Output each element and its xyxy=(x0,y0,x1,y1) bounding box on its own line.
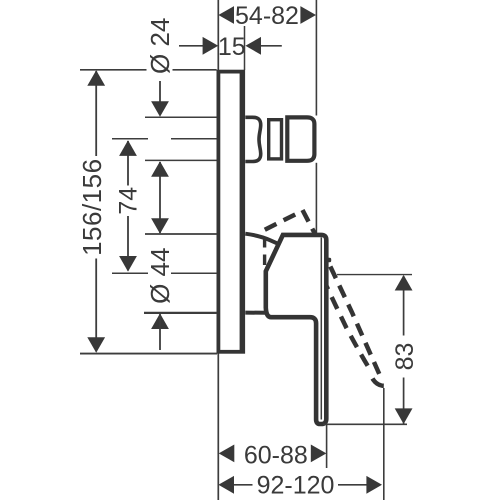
dim 92-120 xyxy=(218,476,234,494)
dim 83 extension top xyxy=(337,274,412,276)
dim 54-82 xyxy=(218,6,234,24)
handle center line xyxy=(112,272,148,274)
dashed handle back edge xyxy=(265,212,301,230)
lever inner line xyxy=(320,238,322,420)
knob top extension line xyxy=(145,116,217,118)
diverter cone xyxy=(245,117,260,161)
plate top extension line xyxy=(80,69,147,71)
svg-text:92-120: 92-120 xyxy=(257,471,335,499)
dashed lever inner edge xyxy=(314,258,372,372)
handle pivot screw xyxy=(327,258,331,263)
plate bottom extension line xyxy=(80,353,217,355)
diverter collar xyxy=(269,120,282,159)
hub bottom extension line xyxy=(144,312,217,314)
lever bottom extension line xyxy=(326,425,328,468)
hub top extension line xyxy=(145,233,217,235)
hub bottom edge xyxy=(245,311,265,315)
dim 74 xyxy=(127,141,129,186)
dim 60-88 xyxy=(219,445,235,463)
wall line / plate back extension xyxy=(217,0,219,500)
dashed lever tip xyxy=(373,379,384,386)
svg-text:74: 74 xyxy=(115,187,143,215)
escutcheon plate xyxy=(218,72,243,352)
dim 83 extension bottom xyxy=(323,423,407,425)
dim 156/156 xyxy=(95,71,97,156)
diverter knob cap xyxy=(287,117,314,160)
svg-text:15: 15 xyxy=(218,33,246,61)
knob tip extension line lower xyxy=(315,163,317,241)
dim 15 xyxy=(179,45,203,47)
plate front face inner line xyxy=(240,73,242,351)
knob tip extension line upper xyxy=(315,0,317,116)
svg-text:54-82: 54-82 xyxy=(235,2,299,30)
svg-text:83: 83 xyxy=(391,343,419,371)
plate front face extension line xyxy=(244,26,246,70)
svg-text:156/156: 156/156 xyxy=(77,158,107,255)
svg-text:60-88: 60-88 xyxy=(244,441,308,469)
hub top edge xyxy=(245,234,277,244)
dashed lever outer edge xyxy=(303,210,380,375)
dim 83 xyxy=(403,276,405,336)
shared line Ø24 bottom / Ø44 top xyxy=(159,162,161,233)
svg-text:Ø 44: Ø 44 xyxy=(145,248,175,304)
knob center line xyxy=(112,138,148,140)
dim Ø24 xyxy=(159,81,161,103)
svg-text:Ø 24: Ø 24 xyxy=(145,18,175,74)
dashed lever tip extension line xyxy=(383,388,385,500)
hub hidden edge dashed xyxy=(263,237,266,268)
knob bottom extension line xyxy=(145,159,217,161)
handle body outline xyxy=(266,235,327,424)
